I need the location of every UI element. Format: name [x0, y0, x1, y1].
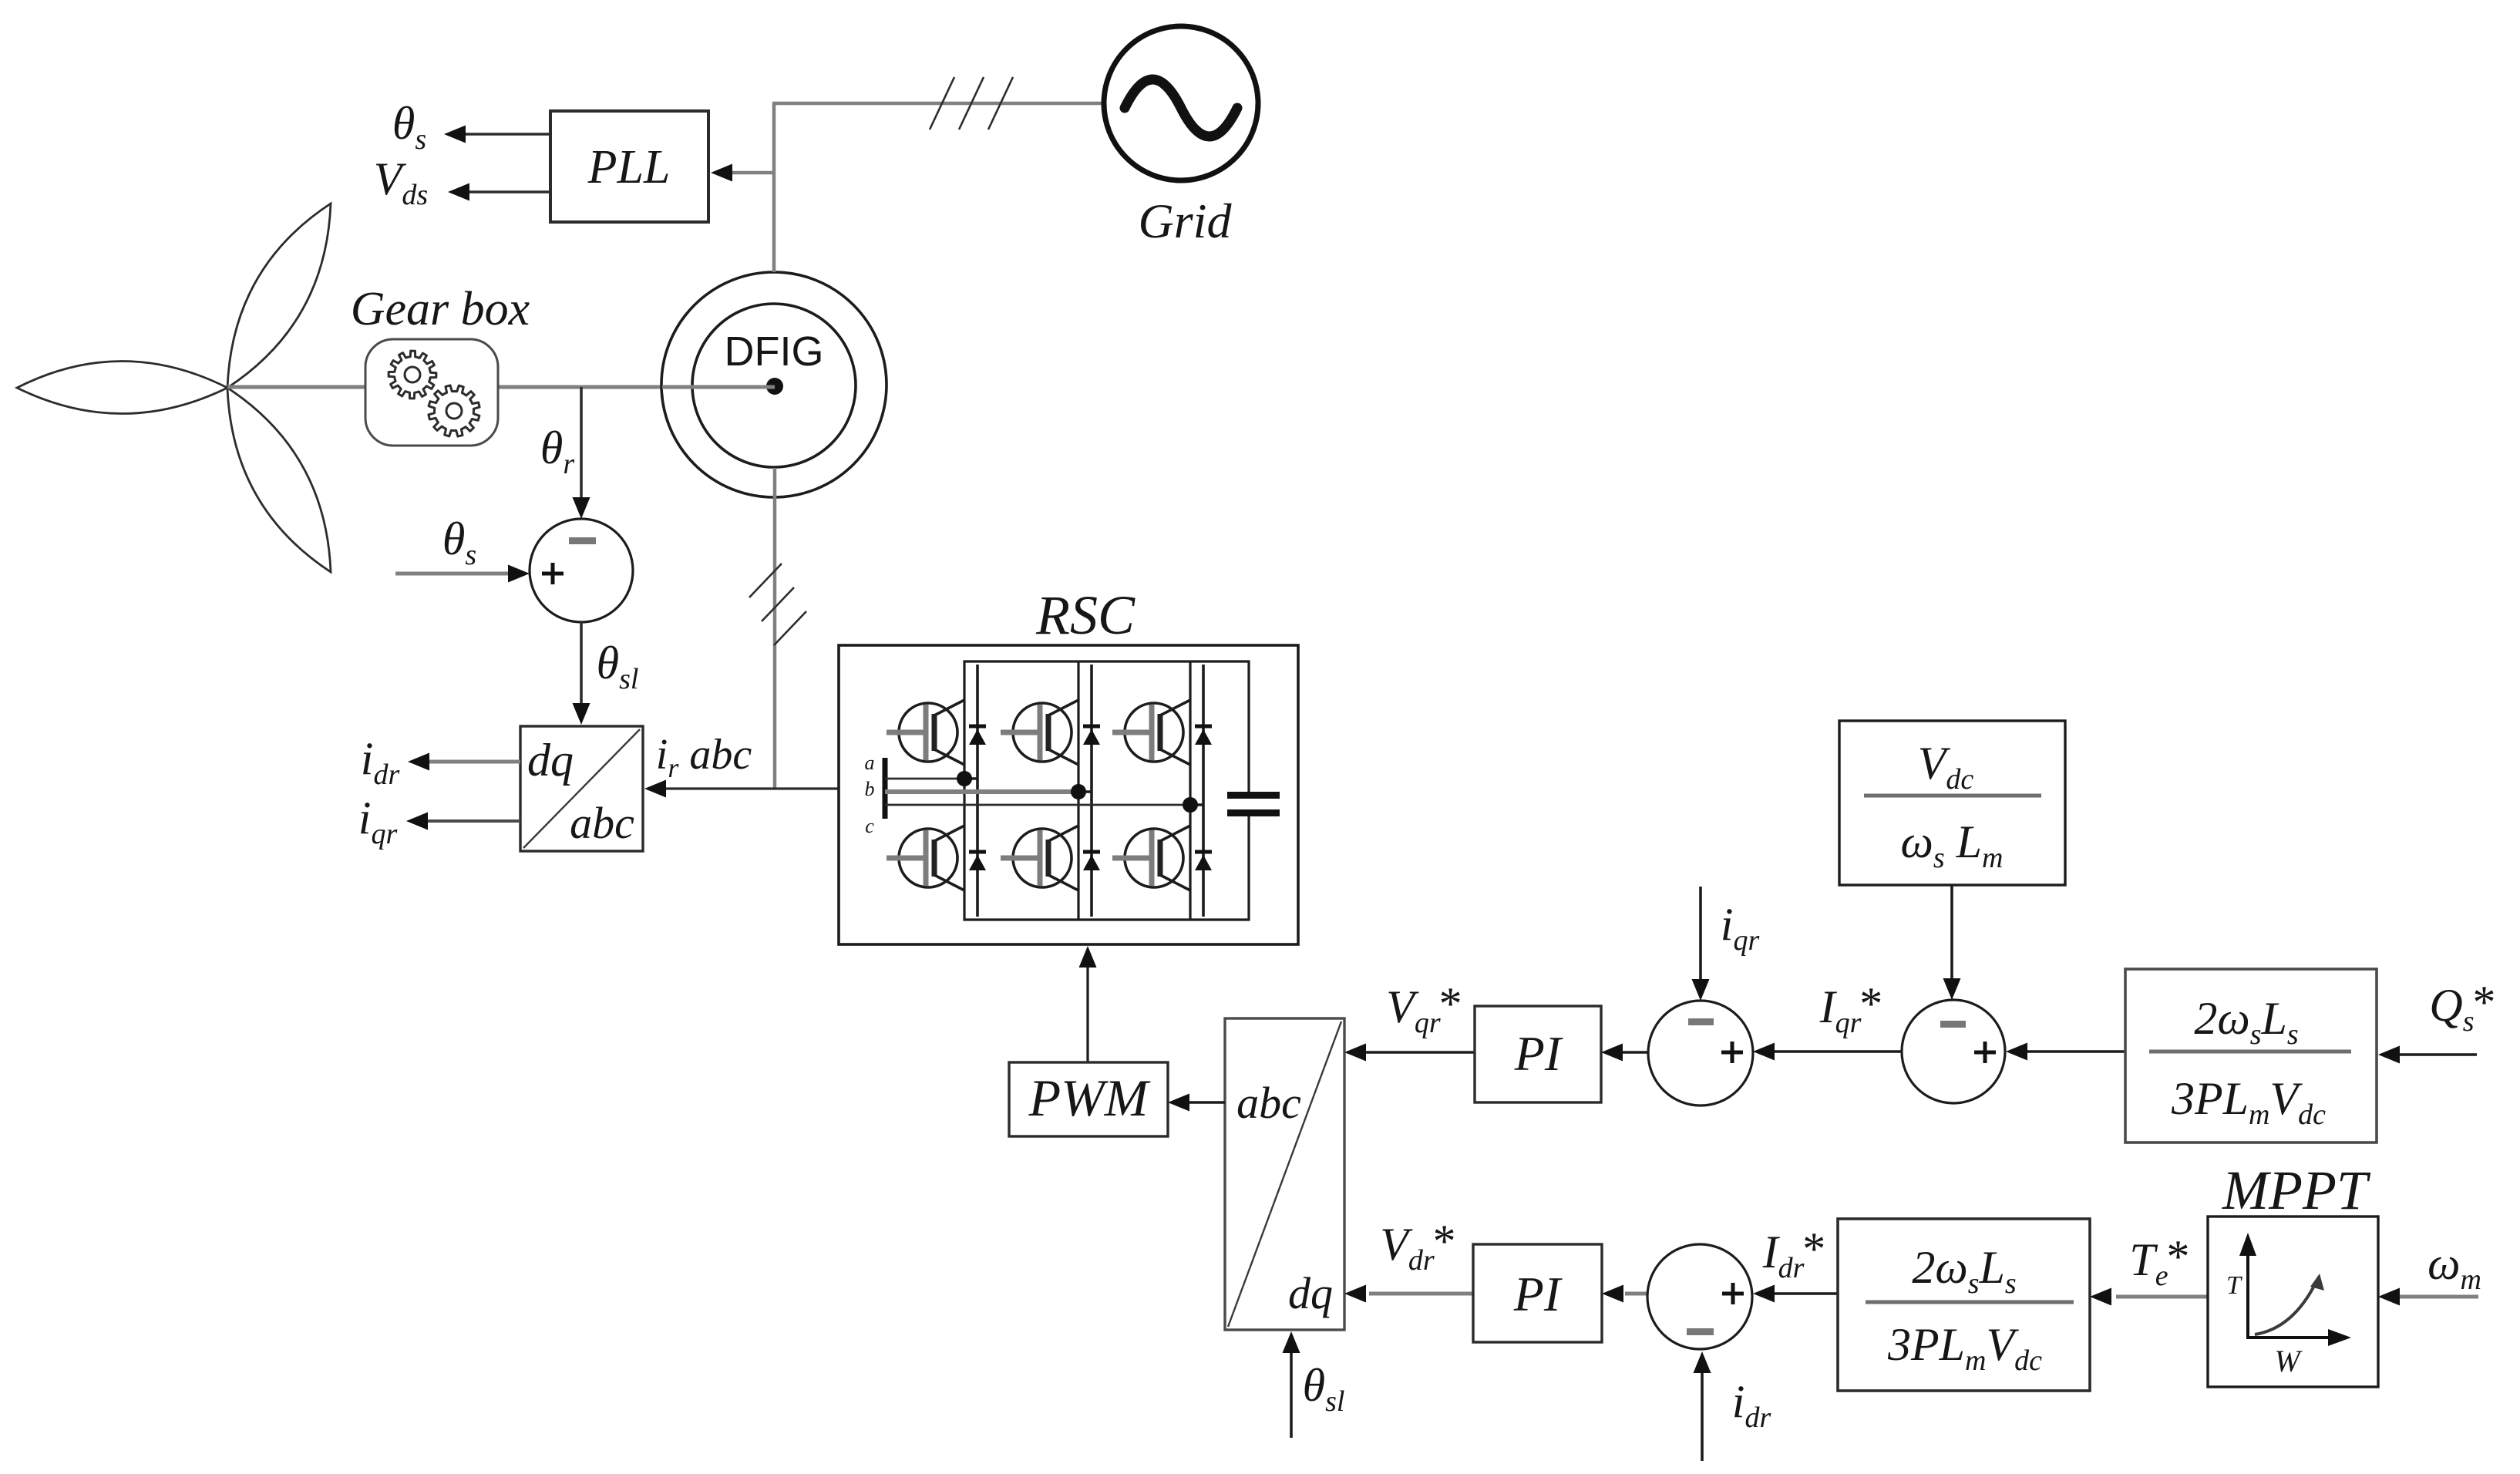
wind turbine blades [17, 204, 331, 572]
diode D4 [969, 779, 986, 917]
node theta_s input label [442, 513, 476, 571]
wire grid node to PLL input [711, 164, 774, 182]
block RSC converter box [839, 645, 1298, 944]
node i_qr label [358, 793, 398, 850]
svg-text:RSC: RSC [1035, 584, 1136, 646]
wire shaft gear box to DFIG [498, 385, 775, 389]
svg-text:dq: dq [1288, 1268, 1333, 1318]
block Vdc over ws Lm [1839, 721, 2065, 885]
three-phase slashes on grid wire [930, 77, 1013, 130]
wire S1 to dq-abc converter [573, 622, 590, 725]
wire RSC leg 2 [1077, 661, 1079, 920]
transistor Q6 [1112, 826, 1190, 890]
grid label [1139, 194, 1233, 248]
wire Vdc block to S3 [1943, 885, 1961, 1000]
gear box [365, 339, 498, 446]
transistor Q4 [887, 826, 964, 890]
summing junction S3 [1902, 1000, 2005, 1103]
svg-text:2ωsLs: 2ωsLs [2194, 993, 2298, 1051]
svg-text:W: W [2274, 1344, 2303, 1378]
block dq-abc current transform [520, 726, 643, 851]
svg-text:a: a [865, 752, 875, 774]
diode D3 [1190, 665, 1212, 805]
svg-text:PLL: PLL [587, 141, 671, 194]
svg-text:PI: PI [1513, 1267, 1563, 1321]
diode D5 [1083, 792, 1100, 917]
diode D6 [1195, 805, 1212, 917]
grid source G1 [1104, 26, 1258, 180]
wire grid node to grid source [772, 102, 1102, 106]
node i_qr input label [1721, 899, 1760, 957]
phase label b [865, 778, 875, 800]
node theta_s label [392, 98, 426, 156]
wire theta_r from shaft down [573, 387, 590, 519]
node theta_r label [540, 422, 574, 480]
DFIG outer circle [661, 272, 887, 497]
svg-text:abc: abc [1236, 1078, 1301, 1128]
svg-text:PI: PI [1514, 1026, 1563, 1081]
node Vqr* label [1386, 978, 1459, 1039]
RSC label [1035, 584, 1136, 646]
svg-text:2ωsLs: 2ωsLs [1912, 1242, 2016, 1300]
block 2wsLs over 3PLmVdc bottom [1838, 1219, 2090, 1391]
wire Qs* input [2378, 1046, 2477, 1064]
svg-text:T: T [2226, 1271, 2242, 1300]
svg-text:abc: abc [570, 798, 634, 848]
wire rotor DFIG down [773, 468, 777, 789]
node i_dr label [361, 733, 400, 791]
node Iqr* label [1819, 978, 1881, 1039]
block PI 1 [1475, 1006, 1601, 1102]
wire Q block to S3 [2006, 1043, 2125, 1061]
wire PWM to RSC [1079, 946, 1097, 1062]
diode D1 [964, 665, 986, 779]
node phase b junction [1071, 784, 1086, 799]
wire PLL Vds output [448, 183, 550, 201]
node Te* label [2129, 1231, 2187, 1292]
svg-text:Gear box: Gear box [351, 283, 530, 335]
node theta_sl label [597, 638, 639, 695]
wire phase c [885, 804, 1190, 806]
node i_r abc label [656, 731, 752, 783]
node Qs* label [2429, 977, 2493, 1038]
transistor Q3 [1112, 700, 1190, 765]
transistor Q1 [887, 700, 964, 765]
wire theta_sl into abc-dq [1283, 1331, 1300, 1438]
node theta_sl input label [1303, 1360, 1345, 1418]
wire abc-dq to PWM [1168, 1094, 1225, 1112]
wire i_qr into S2 [1692, 887, 1710, 1001]
node Idr* label [1762, 1223, 1824, 1284]
svg-text:c: c [865, 815, 874, 837]
gear box label [351, 283, 530, 335]
wire PI1 to abc-dq Vqr [1344, 1044, 1475, 1062]
block PWM [1009, 1062, 1168, 1136]
wire S4 to PI2 [1602, 1285, 1647, 1303]
wire shaft hub to gear box [227, 385, 365, 389]
wire theta_s input to S1 [395, 565, 530, 583]
wire i_qr output [406, 813, 520, 830]
three-phase slashes on rotor wire [749, 564, 806, 645]
node i_dr input label [1732, 1376, 1771, 1434]
wire rotor horizontal to dq-abc [644, 780, 840, 798]
diode D2 [1078, 665, 1100, 792]
wire PLL theta_s output [444, 126, 550, 143]
transistor Q2 [1001, 700, 1078, 765]
block PI 2 [1473, 1244, 1602, 1342]
wire RSC DC bottom rail [964, 779, 1249, 920]
MPPT label [2222, 1159, 2371, 1221]
summing junction S4 [1647, 1244, 1752, 1349]
wire S3 to S2 Iqr [1753, 1043, 1902, 1061]
wire omega_m input [2378, 1288, 2478, 1306]
node phase c junction [1183, 797, 1198, 813]
DFIG label [725, 328, 824, 375]
svg-text:MPPT: MPPT [2222, 1159, 2371, 1221]
summing junction S1 [530, 519, 633, 622]
wire stator DFIG top to grid node [772, 103, 776, 272]
node phase a junction [957, 771, 972, 786]
node Vds label [374, 153, 428, 211]
node Vdr* label [1380, 1216, 1453, 1277]
svg-text:DFIG: DFIG [725, 328, 824, 375]
wire RSC leg 3 [1189, 661, 1191, 920]
block MPPT [2208, 1217, 2378, 1387]
wire T block to S4 Idr [1753, 1285, 1838, 1303]
transistor Q5 [1001, 826, 1078, 890]
block 2wsLs over 3PLmVdc top [2125, 969, 2377, 1143]
svg-text:b: b [865, 778, 875, 800]
wire phase b [885, 789, 1078, 794]
wire MPPT to T block Te [2090, 1288, 2208, 1306]
node omega_m label [2427, 1238, 2481, 1296]
wire i_dr into S4 [1694, 1351, 1711, 1461]
phase label c [865, 815, 874, 837]
wire S2 to PI1 [1601, 1044, 1648, 1062]
capacitor C1 [1227, 792, 1280, 816]
phase label a [865, 752, 875, 774]
svg-text:dq: dq [527, 735, 574, 786]
wire phase a [885, 778, 964, 780]
wire i_dr output [408, 753, 520, 771]
block abc-dq voltage transform [1225, 1018, 1344, 1330]
wire PI2 to abc-dq Vdr [1344, 1285, 1473, 1303]
summing junction S2 [1648, 1001, 1753, 1105]
svg-text:Grid: Grid [1139, 194, 1233, 248]
phase input bar [883, 758, 888, 819]
svg-text:PWM: PWM [1028, 1068, 1151, 1127]
wire RSC DC top rail [964, 661, 1249, 795]
block PLL [550, 111, 708, 222]
